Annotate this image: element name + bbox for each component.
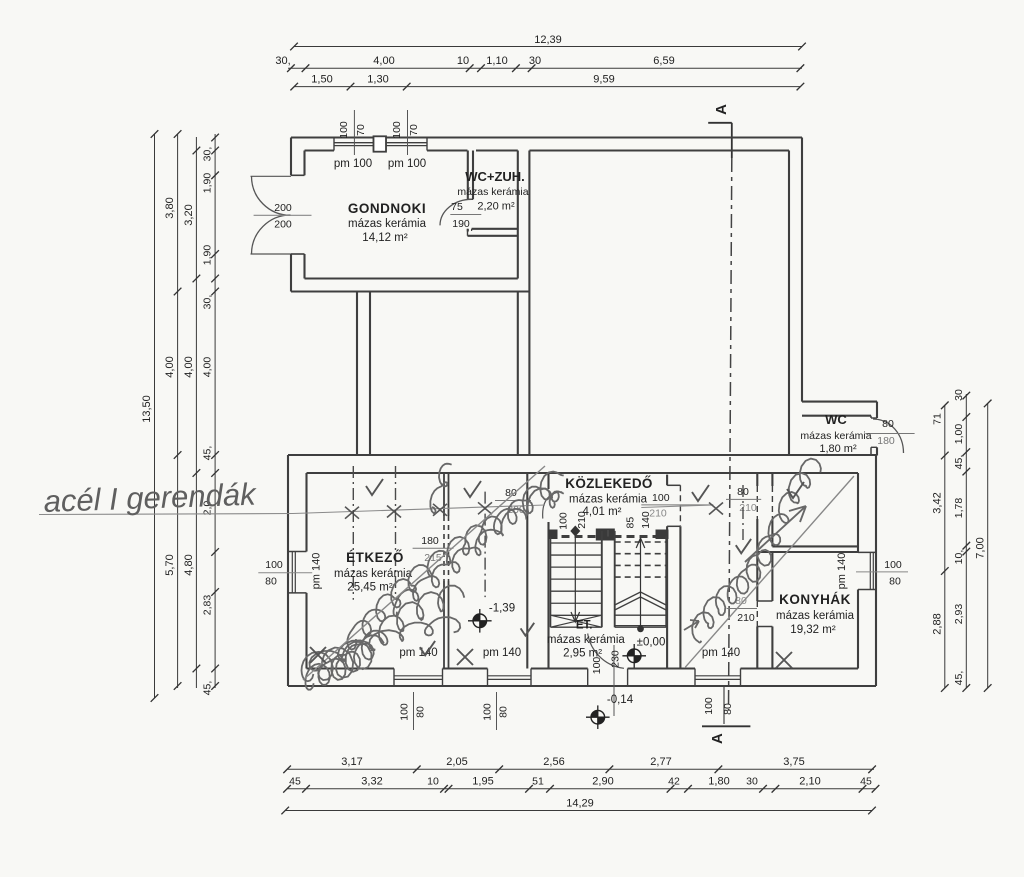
svg-text:WC: WC <box>825 412 847 427</box>
svg-text:5,70: 5,70 <box>164 554 176 575</box>
svg-text:85: 85 <box>624 517 636 529</box>
svg-text:180: 180 <box>877 435 895 447</box>
svg-text:GONDNOKI: GONDNOKI <box>348 201 426 216</box>
svg-text:WC+ZUH.: WC+ZUH. <box>465 169 525 184</box>
svg-text:3,20: 3,20 <box>183 204 195 225</box>
svg-text:80: 80 <box>889 576 901 588</box>
svg-text:70: 70 <box>355 124 367 136</box>
svg-text:75: 75 <box>451 201 463 213</box>
svg-text:80: 80 <box>265 576 277 588</box>
svg-text:19,32 m²: 19,32 m² <box>790 624 836 636</box>
svg-text:2,90: 2,90 <box>592 776 613 788</box>
svg-text:1,50: 1,50 <box>311 74 332 86</box>
svg-text:51: 51 <box>532 776 544 788</box>
svg-text:200: 200 <box>274 202 292 214</box>
svg-text:30: 30 <box>529 55 541 67</box>
svg-text:ET.: ET. <box>576 620 593 632</box>
svg-text:80: 80 <box>497 706 509 718</box>
svg-text:2,83: 2,83 <box>202 595 214 616</box>
svg-text:±0,00: ±0,00 <box>637 637 666 649</box>
svg-text:A: A <box>709 733 726 744</box>
svg-text:4,00: 4,00 <box>183 356 195 377</box>
svg-text:10: 10 <box>457 55 469 67</box>
svg-text:140: 140 <box>640 511 652 529</box>
svg-text:80: 80 <box>882 418 894 430</box>
svg-text:100: 100 <box>652 492 670 504</box>
svg-text:1,90: 1,90 <box>202 245 214 266</box>
svg-text:4,00: 4,00 <box>164 356 176 377</box>
svg-text:1,80: 1,80 <box>708 776 729 788</box>
svg-text:2,88: 2,88 <box>932 613 944 634</box>
svg-text:45: 45 <box>860 776 872 788</box>
svg-text:200: 200 <box>274 219 292 231</box>
svg-text:mázas kerámia: mázas kerámia <box>348 218 427 230</box>
svg-text:14,12 m²: 14,12 m² <box>362 232 408 244</box>
svg-text:2,56: 2,56 <box>543 756 564 768</box>
svg-text:45,: 45, <box>202 681 214 696</box>
svg-text:-1,39: -1,39 <box>489 603 515 615</box>
svg-text:mázas kerámia: mázas kerámia <box>334 568 413 580</box>
svg-text:100: 100 <box>338 121 350 139</box>
svg-text:1,30: 1,30 <box>367 74 388 86</box>
svg-text:2,20 m²: 2,20 m² <box>477 201 515 213</box>
svg-text:pm 140: pm 140 <box>702 647 740 659</box>
svg-text:1,95: 1,95 <box>472 776 493 788</box>
svg-text:13,50: 13,50 <box>141 395 153 423</box>
svg-text:1,78: 1,78 <box>953 498 965 519</box>
svg-text:10: 10 <box>427 776 439 788</box>
svg-text:10,: 10, <box>953 550 965 565</box>
svg-text:2,77: 2,77 <box>650 756 671 768</box>
svg-text:6,59: 6,59 <box>653 55 674 67</box>
svg-text:100: 100 <box>391 121 403 139</box>
svg-text:100: 100 <box>884 559 902 571</box>
svg-text:2,95 m²: 2,95 m² <box>563 648 602 660</box>
svg-text:30,: 30, <box>202 147 214 162</box>
svg-text:pm 140: pm 140 <box>483 647 521 659</box>
svg-text:4,80: 4,80 <box>183 554 195 575</box>
svg-text:KÖZLEKEDŐ: KÖZLEKEDŐ <box>565 476 652 491</box>
svg-text:-0,14: -0,14 <box>607 694 634 706</box>
svg-text:100: 100 <box>703 697 715 715</box>
svg-text:pm 140: pm 140 <box>836 553 848 590</box>
svg-text:acél I gerendák: acél I gerendák <box>43 477 258 519</box>
svg-text:4,00: 4,00 <box>202 357 214 378</box>
svg-text:1,00: 1,00 <box>953 424 965 445</box>
svg-text:3,17: 3,17 <box>341 756 362 768</box>
svg-text:9,59: 9,59 <box>593 74 614 86</box>
svg-text:42: 42 <box>668 776 680 788</box>
svg-text:pm 100: pm 100 <box>388 158 426 170</box>
svg-text:190: 190 <box>452 218 470 230</box>
svg-text:2,93: 2,93 <box>953 604 965 625</box>
svg-text:4,01 m²: 4,01 m² <box>583 506 622 518</box>
svg-text:30,: 30, <box>202 295 214 310</box>
svg-text:mázas kerámia: mázas kerámia <box>569 494 648 506</box>
svg-text:14,29: 14,29 <box>566 798 594 810</box>
svg-text:1,80 m²: 1,80 m² <box>819 443 857 455</box>
svg-text:12,39: 12,39 <box>534 34 562 46</box>
svg-text:180: 180 <box>421 535 439 547</box>
svg-text:1,90: 1,90 <box>202 173 214 194</box>
svg-text:210: 210 <box>737 612 755 624</box>
svg-text:71: 71 <box>932 413 944 425</box>
svg-text:3,80: 3,80 <box>164 197 176 218</box>
svg-text:pm 140: pm 140 <box>311 553 323 590</box>
svg-text:45,: 45, <box>953 671 965 686</box>
svg-text:3,75: 3,75 <box>783 756 804 768</box>
svg-text:mázas kerámia: mázas kerámia <box>800 430 871 442</box>
svg-text:100: 100 <box>399 703 411 721</box>
svg-text:pm 140: pm 140 <box>399 647 437 659</box>
svg-text:ÉTKEZŐ: ÉTKEZŐ <box>346 550 404 565</box>
svg-text:45,: 45, <box>202 446 214 461</box>
svg-text:80: 80 <box>722 703 734 715</box>
svg-text:30,: 30, <box>275 55 290 67</box>
svg-text:45,: 45, <box>953 455 965 470</box>
svg-text:4,00: 4,00 <box>373 55 394 67</box>
svg-text:2,05: 2,05 <box>446 756 467 768</box>
svg-text:7,00: 7,00 <box>974 537 986 558</box>
svg-text:pm 100: pm 100 <box>334 158 372 170</box>
svg-text:45: 45 <box>289 776 301 788</box>
svg-text:3,42: 3,42 <box>932 492 944 513</box>
svg-text:70: 70 <box>408 124 420 136</box>
svg-text:3,32: 3,32 <box>361 776 382 788</box>
svg-text:30: 30 <box>953 389 965 401</box>
svg-text:30: 30 <box>746 776 758 788</box>
svg-text:210: 210 <box>739 502 757 514</box>
svg-text:KONYHÁK: KONYHÁK <box>779 592 851 607</box>
svg-text:mázas kerámia: mázas kerámia <box>776 610 855 622</box>
svg-text:2,10: 2,10 <box>799 776 820 788</box>
svg-text:1,10: 1,10 <box>486 55 507 67</box>
svg-text:100: 100 <box>558 512 570 530</box>
svg-text:25,45 m²: 25,45 m² <box>347 582 393 594</box>
svg-text:A: A <box>713 104 730 115</box>
svg-text:mázas kerámia: mázas kerámia <box>457 186 528 198</box>
svg-text:230: 230 <box>610 650 622 668</box>
svg-text:80: 80 <box>414 706 426 718</box>
svg-text:mázas kerámia: mázas kerámia <box>547 634 626 646</box>
svg-text:100: 100 <box>265 559 283 571</box>
svg-text:100: 100 <box>482 703 494 721</box>
